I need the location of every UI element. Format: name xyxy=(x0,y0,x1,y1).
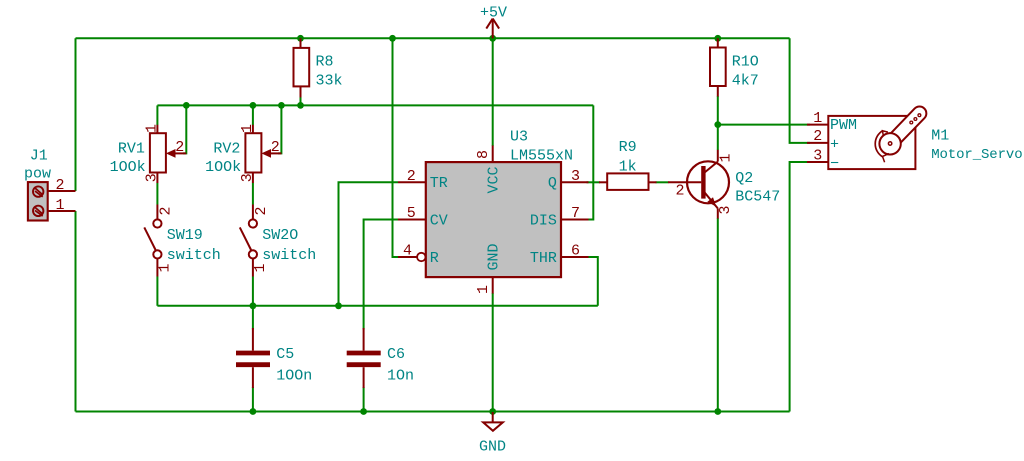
svg-text:CV: CV xyxy=(430,212,448,229)
servo rotor circle xyxy=(879,133,900,154)
svg-text:RV2: RV2 xyxy=(213,141,240,158)
wire R8 bottom rail (pots/DIS net) xyxy=(157,104,593,106)
junction collector node xyxy=(714,121,721,128)
junction SW20/C5 on trigger rail xyxy=(250,302,257,309)
svg-text:2: 2 xyxy=(813,128,822,145)
wire left vertical J1 pin2 to +5V rail xyxy=(75,38,77,191)
pin U3-4 R with bubble xyxy=(398,256,417,258)
op-amp U3 timer LM555 xyxy=(398,146,589,294)
connector J1 xyxy=(28,182,76,220)
svg-text:6: 6 xyxy=(571,243,580,260)
servo arm dots xyxy=(910,121,913,124)
svg-text:1OOn: 1OOn xyxy=(276,368,312,385)
svg-text:2: 2 xyxy=(407,168,416,185)
pin U3-8 VCC xyxy=(492,146,494,163)
svg-text:33k: 33k xyxy=(316,73,343,90)
svg-text:7: 7 xyxy=(571,205,580,222)
junction TR drop on trigger rail xyxy=(335,302,342,309)
wire R9 to Q2 base xyxy=(656,181,669,183)
svg-text:pow: pow xyxy=(24,166,51,183)
wire RV2 wiper up xyxy=(278,105,281,153)
wire +5V rail to motor plus pin xyxy=(790,38,810,143)
svg-text:DIS: DIS xyxy=(530,212,557,229)
svg-text:SW2O: SW2O xyxy=(262,227,298,244)
junction C6 on GND rail xyxy=(360,408,367,415)
wire RV1 pin3 to SW19 xyxy=(156,183,158,205)
junction RV1 wiper on pot rail xyxy=(183,102,190,109)
pin U3-7 DIS xyxy=(561,219,589,221)
junction +5V symbol xyxy=(489,35,496,42)
svg-text:1: 1 xyxy=(56,197,65,214)
svg-text:1: 1 xyxy=(157,263,174,272)
svg-text:RV1: RV1 xyxy=(118,141,145,158)
svg-text:1OOk: 1OOk xyxy=(110,159,146,176)
svg-text:2: 2 xyxy=(56,177,65,194)
wire motor minus pin to GND rail xyxy=(790,162,810,412)
svg-text:SW19: SW19 xyxy=(167,227,203,244)
wire TR pin left and down xyxy=(339,182,399,305)
wire collector node to Q2 xyxy=(717,125,719,150)
wire C5 bottom to rail xyxy=(252,387,254,412)
svg-text:R1O: R1O xyxy=(732,54,759,71)
svg-text:1: 1 xyxy=(252,263,269,272)
svg-text:3: 3 xyxy=(717,206,734,215)
junction R8 top on +5V rail xyxy=(297,35,304,42)
svg-text:VCC: VCC xyxy=(486,166,503,193)
svg-text:J1: J1 xyxy=(30,148,48,165)
junction GND symbol on GND rail xyxy=(489,408,496,415)
wire left vertical J1 pin1 to GND rail xyxy=(75,211,77,412)
svg-text:1k: 1k xyxy=(619,159,637,176)
svg-text:LM555xN: LM555xN xyxy=(510,148,573,165)
svg-text:TR: TR xyxy=(430,175,448,192)
svg-text:1: 1 xyxy=(144,124,161,133)
pin U3-2 TR xyxy=(398,181,426,183)
svg-text:THR: THR xyxy=(530,250,557,267)
pin U3-5 CV xyxy=(398,219,426,221)
svg-text:−: − xyxy=(830,156,839,173)
junction R10 top on +5V rail xyxy=(714,35,721,42)
wire R8 bottom to rail xyxy=(300,97,302,105)
svg-text:1: 1 xyxy=(718,153,735,162)
transistor Q2 xyxy=(668,150,729,219)
wire RV2 pin1 up xyxy=(252,105,254,125)
resistor R9 xyxy=(599,173,657,190)
svg-text:3: 3 xyxy=(239,173,256,182)
switch SW20 xyxy=(240,205,257,277)
svg-text:GND: GND xyxy=(479,439,506,456)
capacitor C6 xyxy=(347,328,381,388)
wire C5 top stub xyxy=(252,306,254,330)
wire reset net vertical xyxy=(393,38,417,257)
wire collector node to motor PWM pin xyxy=(718,124,810,126)
pin M1-1 PWM xyxy=(807,124,828,126)
pin U3-3 Q xyxy=(561,181,589,183)
svg-text:Motor_Servo: Motor_Servo xyxy=(931,147,1022,163)
svg-text:U3: U3 xyxy=(510,129,528,146)
wire Q output to R9 xyxy=(587,181,601,183)
wire +5V to VCC pin xyxy=(492,38,494,146)
servo rotation arc xyxy=(875,131,883,157)
potentiometer RV2 xyxy=(245,125,281,183)
svg-text:switch: switch xyxy=(167,247,221,264)
wire U3 GND pin down to rail xyxy=(492,293,494,412)
junction Q2 emitter on GND rail xyxy=(714,408,721,415)
svg-text:3: 3 xyxy=(143,173,160,182)
wire RV2 pin3 to SW20 xyxy=(252,183,254,205)
svg-text:5: 5 xyxy=(407,205,416,222)
wire Q2 emitter down to rail xyxy=(717,218,719,412)
svg-text:1: 1 xyxy=(239,124,256,133)
svg-text:Q2: Q2 xyxy=(735,170,753,187)
pin U3-1 GND xyxy=(492,277,494,293)
svg-text:4k7: 4k7 xyxy=(732,73,759,90)
wire top +5V rail xyxy=(76,37,790,39)
pin M1-2 plus xyxy=(807,142,828,144)
motor M1 servo xyxy=(807,107,926,170)
junction RV2 wiper on pot rail xyxy=(278,102,285,109)
wire R10 bottom to collector node xyxy=(717,96,719,125)
svg-text:2: 2 xyxy=(157,206,174,215)
svg-text:1: 1 xyxy=(475,285,492,294)
svg-text:R: R xyxy=(430,250,439,267)
svg-text:3: 3 xyxy=(813,147,822,164)
resistor R8 xyxy=(294,38,310,97)
wire RV1 pin1 up xyxy=(156,105,158,125)
svg-text:PWM: PWM xyxy=(830,117,857,134)
ground symbol GND xyxy=(483,412,503,431)
junction C5 on GND rail xyxy=(250,408,257,415)
svg-text:1: 1 xyxy=(813,110,822,127)
potentiometer RV1 xyxy=(150,125,186,183)
wire RV1 wiper up xyxy=(183,105,186,153)
junction reset wire on +5V rail xyxy=(389,35,396,42)
svg-text:1OOk: 1OOk xyxy=(205,159,241,176)
resistor R10 xyxy=(710,38,726,96)
svg-text:3: 3 xyxy=(571,168,580,185)
svg-text:2: 2 xyxy=(253,206,270,215)
wire THR riser xyxy=(588,257,598,306)
power +5V symbol xyxy=(486,19,499,39)
svg-text:M1: M1 xyxy=(931,127,949,144)
svg-text:R9: R9 xyxy=(619,139,637,156)
wire R8 top stub to rail xyxy=(300,38,302,41)
svg-text:+: + xyxy=(830,137,839,154)
wire DIS drop xyxy=(588,105,593,219)
servo arm xyxy=(885,107,926,149)
svg-text:+5V: +5V xyxy=(480,5,507,22)
svg-text:GND: GND xyxy=(486,243,503,270)
svg-text:switch: switch xyxy=(262,247,316,264)
svg-text:2: 2 xyxy=(175,139,184,156)
svg-text:2: 2 xyxy=(271,139,280,156)
wire SW20 bottom down xyxy=(252,277,254,306)
svg-text:C6: C6 xyxy=(387,346,405,363)
wire CV pin left and down to C6 xyxy=(364,220,398,330)
capacitor C5 xyxy=(236,328,270,388)
switch SW19 xyxy=(144,205,161,277)
svg-text:R8: R8 xyxy=(316,54,334,71)
wire bottom GND rail xyxy=(76,411,790,413)
wire SW19 bottom down xyxy=(156,277,158,306)
svg-text:Q: Q xyxy=(548,175,557,192)
svg-text:2: 2 xyxy=(676,183,685,200)
junction R8 bottom on pot rail xyxy=(297,102,304,109)
svg-text:BC547: BC547 xyxy=(735,189,780,206)
junction RV2 pin1 on pot rail xyxy=(250,102,257,109)
svg-text:C5: C5 xyxy=(276,346,294,363)
pin M1-3 minus xyxy=(807,161,828,163)
svg-text:4: 4 xyxy=(403,243,412,260)
svg-text:1On: 1On xyxy=(387,368,414,385)
pin U3-6 THR xyxy=(561,256,589,258)
svg-text:8: 8 xyxy=(475,150,492,159)
wire C6 bottom to rail xyxy=(363,387,365,412)
wire trigger rail horizontal xyxy=(157,305,597,307)
